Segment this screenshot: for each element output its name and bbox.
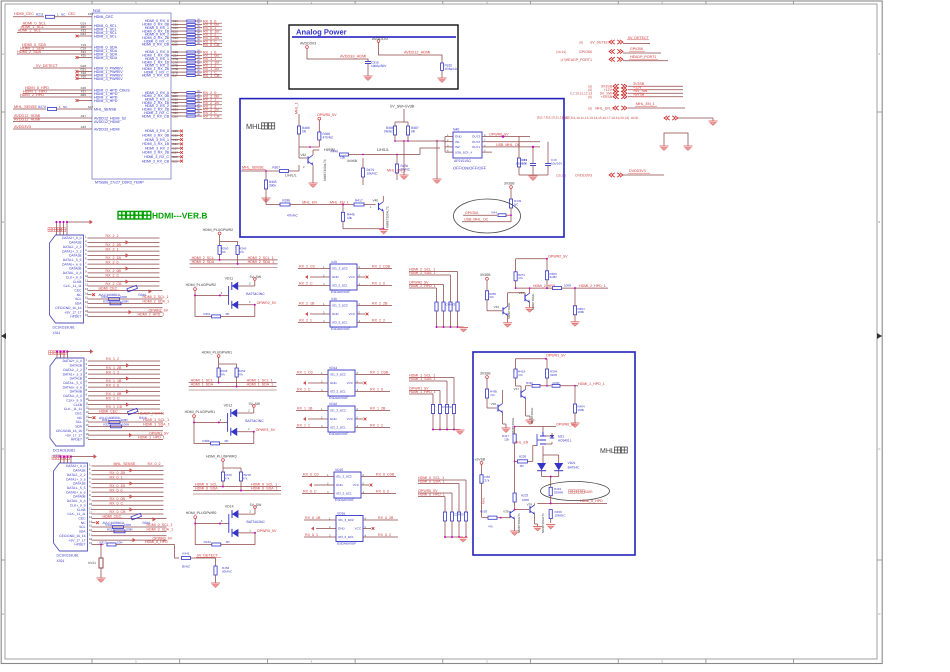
wire AVDD1V2 to FB: [379, 42, 443, 63]
svg-text:A: A: [878, 52, 880, 56]
resistor R456 0R/NC: [395, 164, 398, 173]
svg-text:OPWR2_5V: OPWR2_5V: [548, 255, 568, 259]
svg-text:HDMI_1_RX_CB: HDMI_1_RX_CB: [142, 74, 170, 78]
net OPWR0_5V at diode pin 1: [238, 532, 255, 534]
svg-text:RX_1_0: RX_1_0: [370, 388, 383, 392]
svg-text:R441: R441: [182, 552, 190, 556]
svg-text:+5VSB: +5VSB: [633, 93, 645, 97]
svg-text:RX_1_1: RX_1_1: [106, 370, 119, 374]
connector X321 ground row: [92, 535, 167, 537]
resistor R404 100k: [574, 386, 576, 404]
svg-text:5V_DETECT: 5V_DETECT: [36, 64, 59, 68]
wire SDA net ch1: [189, 386, 277, 388]
connector X311 label (CJK): [48, 228, 52, 232]
connector X321 NC row: [92, 522, 96, 524]
resistor R226 0R: [518, 460, 528, 463]
svg-text:IO3_2_BC1: IO3_2_BC1: [332, 284, 348, 288]
svg-text:F25: F25: [81, 53, 87, 57]
svg-text:MMBT3904LT1: MMBT3904LT1: [386, 206, 390, 228]
resistor R265 47k: [485, 291, 488, 300]
wire mosfet gate to R226 branch: [532, 445, 534, 461]
svg-text:K17: K17: [88, 105, 94, 109]
svg-text:IN2: IN2: [455, 145, 460, 149]
svg-text:C2RV2: C2RV2: [454, 513, 464, 517]
wire MHL_1 to R489: [298, 114, 300, 126]
connector X321 SDA row resistor: [92, 530, 167, 532]
svg-text:RX_1_0: RX_1_0: [106, 383, 119, 387]
svg-text:RX_1_2B: RX_1_2B: [370, 407, 386, 411]
svg-text:OPWR1_5V: OPWR1_5V: [546, 354, 566, 358]
svg-text:RX_0_C0: RX_0_C0: [303, 473, 319, 477]
svg-text:HDMI_3_SCL: HDMI_3_SCL: [94, 34, 117, 38]
resistor R264 100k: [574, 288, 576, 306]
svg-text:0R: 0R: [411, 129, 416, 133]
svg-text:+5VSB: +5VSB: [601, 95, 613, 99]
svg-text:OFF/ON/OFF/OFF: OFF/ON/OFF/OFF: [453, 166, 487, 171]
svg-text:DC1RO19UB1: DC1RO19UB1: [53, 449, 75, 453]
svg-text:910R: 910R: [550, 275, 558, 279]
connector X320 HPDET row: [88, 438, 163, 440]
svg-text:RX_2_1: RX_2_1: [106, 247, 119, 251]
svg-text:BAT54CINC: BAT54CINC: [245, 419, 264, 423]
svg-text:R332: R332: [103, 300, 111, 304]
svg-text:MMBT3904LT1: MMBT3904LT1: [517, 513, 521, 533]
connector X321 label (CJK): [52, 456, 56, 460]
svg-text:E19: E19: [88, 12, 94, 16]
svg-text:GPIO56: GPIO56: [579, 50, 592, 54]
ESD diode IC VD15: [334, 472, 361, 498]
ESD diode IC VD16: [336, 516, 363, 542]
svg-text:HDMI_PLUGPWR1: HDMI_PLUGPWR1: [185, 410, 216, 414]
resistor R39 47k: [518, 137, 520, 159]
svg-text:GND: GND: [338, 527, 346, 531]
pulldown wires ch0: [465, 480, 467, 512]
svg-text:HDMI_3_SDA: HDMI_3_SDA: [94, 56, 118, 60]
connector X321 SCL row resistor: [92, 526, 167, 528]
connector X311 SCL row resistor: [88, 298, 163, 300]
svg-text:AVDD12_HDMI: AVDD12_HDMI: [404, 51, 430, 55]
svg-text:47k: 47k: [489, 295, 494, 299]
svg-text:CEC: CEC: [68, 12, 76, 16]
wire VD12 node: [194, 421, 228, 423]
svg-text:IO1_3_BC2: IO1_3_BC2: [332, 304, 348, 308]
svg-text:620RR: 620RR: [554, 491, 564, 495]
svg-text:620R: 620R: [585, 490, 594, 494]
pulldown wires ch1: [453, 378, 455, 405]
svg-text:V30: V30: [331, 297, 337, 301]
svg-text:HDMI_0_SDA_1: HDMI_0_SDA_1: [147, 528, 174, 532]
svg-text:R503: R503: [480, 510, 488, 514]
svg-text:3V3SB: 3V3SB: [347, 159, 357, 163]
svg-text:VCC: VCC: [347, 417, 354, 421]
svg-text:RX_0_C: RX_0_C: [303, 490, 317, 494]
ellipse annotation GPIO5A/USB_MHL_OC: [454, 199, 521, 233]
ground under V36: [502, 427, 511, 429]
ground under V34: [503, 322, 512, 324]
svg-text:IO1_3_BC2: IO1_3_BC2: [338, 518, 354, 522]
svg-text:MHL: MHL: [600, 448, 615, 455]
ground for FB32: [441, 71, 443, 79]
svg-text:VCC: VCC: [353, 483, 360, 487]
wire SCL net ch0: [193, 486, 281, 488]
svg-text:G24: G24: [80, 32, 86, 36]
svg-text:HDMI_0_SDA: HDMI_0_SDA: [195, 487, 218, 491]
connector X311 SDA row resistor: [88, 302, 163, 304]
svg-text:DVDD3V3: DVDD3V3: [629, 169, 646, 173]
svg-text:MMBT3904LT1: MMBT3904LT1: [323, 159, 327, 181]
svg-text:27k: 27k: [485, 479, 490, 483]
svg-text:47k: 47k: [490, 393, 495, 397]
MHL control group box (top): [240, 99, 564, 237]
svg-text:470/NC: 470/NC: [323, 135, 335, 139]
svg-text:VCC: VCC: [349, 275, 356, 279]
svg-text:R251: R251: [203, 312, 211, 316]
svg-text:HDMI_PLUGPWR2: HDMI_PLUGPWR2: [203, 228, 234, 232]
svg-text:R322: R322: [103, 423, 111, 427]
svg-text:MMBT3904L: MMBT3904L: [507, 302, 511, 319]
resistor R441 2k/NC: [182, 557, 191, 560]
resistor R44 in ellipse: [498, 214, 506, 217]
svg-text:GND: GND: [332, 275, 340, 279]
ellipse annotation 620R change: [541, 482, 610, 501]
resistor R250 47k: [218, 245, 221, 254]
svg-text:AO3401L: AO3401L: [558, 439, 572, 443]
svg-text:AP2151SG: AP2151SG: [454, 159, 471, 163]
svg-text:X321: X321: [57, 559, 65, 563]
svg-text:HDMI_1_SDA: HDMI_1_SDA: [191, 383, 214, 387]
svg-text:MHL: MHL: [481, 497, 485, 504]
resistor R419 620RR (in ellipse): [549, 487, 552, 495]
ground under R463: [211, 582, 220, 584]
svg-text:HDMI_0_HPD: HDMI_0_HPD: [145, 540, 168, 544]
svg-text:VD13: VD13: [329, 366, 337, 370]
svg-text:MMBT3904L: MMBT3904L: [530, 407, 534, 424]
svg-text:RX_2_2: RX_2_2: [106, 234, 119, 238]
series resistors to HDMI_1_HPD_1: [526, 385, 531, 387]
svg-text:HDMI_2_HPD_1: HDMI_2_HPD_1: [409, 284, 436, 288]
connector X321 differential wires: [92, 465, 164, 467]
svg-text:BAT54CINC: BAT54CINC: [246, 292, 265, 296]
svg-text:R420: R420: [526, 381, 533, 385]
pin stub G24 NC: [78, 35, 92, 37]
svg-text:L/H/L/L: L/H/L/L: [377, 148, 389, 152]
svg-text:[5,6,7,8,9,10,11,12,13,14,15,1: [5,6,7,8,9,10,11,12,13,14,15,16,17,18,19…: [562, 116, 639, 120]
svg-text:47k: 47k: [220, 372, 225, 376]
svg-text:R417: R417: [355, 199, 363, 203]
svg-text:RX_2_2B: RX_2_2B: [372, 302, 388, 306]
capacitor C43 10u/16V: [547, 142, 549, 163]
svg-text:AVDD12_HDMI: AVDD12_HDMI: [14, 117, 40, 121]
svg-text:DC1RO19UB1: DC1RO19UB1: [57, 554, 79, 558]
svg-text:IO1_3_BC2: IO1_3_BC2: [330, 409, 346, 413]
svg-text:RX_2_2: RX_2_2: [372, 319, 385, 323]
svg-text:DVDD3V3: DVDD3V3: [575, 173, 592, 177]
svg-text:IO3_2_BC1: IO3_2_BC1: [336, 492, 352, 496]
svg-text:47k: 47k: [238, 372, 243, 376]
svg-text:50k/NC: 50k/NC: [222, 569, 233, 573]
svg-text:[6]: [6]: [588, 106, 592, 110]
svg-text:R313: R313: [99, 540, 107, 544]
connector X320 +5V row: [88, 434, 163, 436]
resistor R447 12k: [513, 434, 516, 443]
svg-text:HDMI_3_PWR5V: HDMI_3_PWR5V: [94, 77, 123, 81]
svg-text:HEADP_PORT1: HEADP_PORT1: [630, 55, 656, 59]
svg-text:1R8a/1A: 1R8a/1A: [445, 67, 458, 71]
svg-text:RX_1_C: RX_1_C: [297, 388, 311, 392]
svg-text:IO1_3_BC2: IO1_3_BC2: [330, 373, 346, 377]
connector X320 ground row: [88, 430, 163, 432]
wire rail to N40: [395, 140, 445, 142]
svg-text:5V_SW+5V3B: 5V_SW+5V3B: [390, 105, 415, 109]
resistor R286 0R: [194, 422, 211, 443]
wire mosfet drain down to diodes: [542, 446, 544, 455]
ESD diode IC VD13: [328, 370, 355, 396]
svg-text:VD21: VD21: [568, 461, 576, 465]
resistor R394 910R: [545, 369, 548, 378]
svg-text:MHL_SENSE: MHL_SENSE: [14, 105, 37, 109]
connector X311 HPDET row: [88, 315, 163, 317]
svg-text:N40: N40: [453, 128, 459, 132]
svg-text:ESDA6V8UF: ESDA6V8UF: [329, 396, 348, 400]
svg-text:ESDA6V8UF: ESDA6V8UF: [337, 541, 356, 545]
IC N40 AP2151SG: [453, 132, 482, 158]
grounds under caps: [519, 174, 548, 176]
svg-text:MHL_EN_1: MHL_EN_1: [595, 106, 614, 110]
wire VD11 node: [195, 294, 229, 296]
svg-text:MHL_SENSE: MHL_SENSE: [242, 166, 264, 170]
resistor R449 NC: [509, 199, 512, 208]
svg-text:OPWR0_5V: OPWR0_5V: [317, 113, 337, 117]
pulldown ground ch2: [437, 326, 464, 328]
svg-text:RX_2_C: RX_2_C: [106, 273, 120, 277]
HDMI connector X321 body: [54, 463, 88, 551]
connector X320 differential wires: [88, 360, 160, 362]
svg-text:HDMI_1_SDA_1: HDMI_1_SDA_1: [247, 383, 274, 387]
svg-text:V34: V34: [494, 305, 500, 309]
svg-text:HDMI_0_SDA_1: HDMI_0_SDA_1: [418, 480, 445, 484]
svg-text:100R: 100R: [122, 300, 130, 304]
svg-text:RX_0_0: RX_0_0: [110, 488, 123, 492]
svg-text:VCC: VCC: [355, 527, 362, 531]
svg-text:OUT3: OUT3: [472, 135, 480, 139]
svg-text:12k: 12k: [504, 437, 509, 441]
svg-text:47k: 47k: [488, 524, 493, 528]
svg-text:2k/NC: 2k/NC: [182, 564, 191, 568]
pin stub F25 NC: [78, 57, 92, 59]
ESD diode IC V29: [330, 264, 357, 290]
resistor R485 47k: [485, 389, 488, 398]
svg-text:L/H/L/L: L/H/L/L: [285, 173, 297, 177]
svg-text:ESDA6V8UF: ESDA6V8UF: [331, 327, 350, 331]
svg-text:+5VSB: +5VSB: [475, 457, 486, 461]
connector X320 SCL row resistor: [88, 421, 163, 423]
svg-text:10k: 10k: [347, 216, 353, 220]
ground under V37: [526, 419, 535, 421]
svg-text:ESDA6V8UF: ESDA6V8UF: [335, 498, 354, 502]
svg-text:MHL_SENSE: MHL_SENSE: [94, 107, 117, 111]
svg-text:R226: R226: [519, 455, 527, 459]
power AVDD1V2: [377, 40, 380, 43]
svg-text:RX_1_1: RX_1_1: [297, 424, 310, 428]
svg-text:VD14: VD14: [225, 505, 234, 509]
svg-text:MHL_EN: MHL_EN: [515, 440, 529, 444]
connector X311 differential wires: [88, 237, 160, 239]
svg-text:HDMI_CEC: HDMI_CEC: [94, 15, 114, 19]
svg-text:RX_1_C0B: RX_1_C0B: [370, 371, 389, 375]
svg-text:RX_2_1B: RX_2_1B: [299, 302, 315, 306]
resistor RW18 47k: [239, 472, 242, 481]
svg-text:47k: 47k: [239, 250, 244, 254]
svg-text:BAT54C: BAT54C: [568, 465, 581, 469]
svg-text:USB_MHL_OC: USB_MHL_OC: [464, 218, 489, 222]
svg-text:AVDD1V2: AVDD1V2: [372, 37, 388, 41]
svg-text:RX_2_C0: RX_2_C0: [299, 265, 315, 269]
resistor R223 100R: [513, 493, 516, 502]
svg-text:A27: A27: [81, 114, 87, 118]
connector X311 +5V row: [88, 311, 163, 313]
connector X321 top entry wires: [60, 457, 62, 464]
svg-text:RX_2_0: RX_2_0: [106, 260, 119, 264]
resistor R248 47k: [217, 368, 220, 377]
svg-text:ESDA6V8UF: ESDA6V8UF: [329, 432, 348, 436]
resistor R288 47k/NC: [265, 198, 267, 205]
svg-text:47k: 47k: [243, 476, 248, 480]
svg-text:RX_0_C: RX_0_C: [110, 501, 124, 505]
resistor R257 47k (2): [514, 272, 517, 281]
Analog Power group box: [289, 25, 458, 89]
svg-text:47k/NC: 47k/NC: [287, 213, 298, 217]
ground under V39: [533, 526, 542, 528]
svg-text:MHL: MHL: [246, 122, 262, 131]
svg-text:V32: V32: [300, 153, 306, 157]
svg-text:GPIO56: GPIO56: [630, 47, 643, 51]
resistor R419 47k (bottom box): [514, 369, 517, 378]
varistor XV21: [100, 545, 102, 559]
svg-text:R421: R421: [204, 540, 212, 544]
pi wire with two grounds: [664, 133, 688, 146]
connector X320 top entry wires: [56, 352, 58, 359]
svg-text:HDMI_2_HPD_1: HDMI_2_HPD_1: [138, 313, 165, 317]
svg-text:DC1RO19UB1: DC1RO19UB1: [53, 326, 75, 330]
ESD diode IC V30: [330, 301, 357, 327]
svg-text:V37: V37: [514, 387, 520, 391]
resistor R395 390k with ground: [265, 171, 267, 180]
IC N16 MT5506 body: [92, 13, 171, 179]
svg-text:XV21: XV21: [88, 561, 96, 565]
svg-text:HDMI_0_RX_CB: HDMI_0_RX_CB: [142, 43, 170, 47]
svg-text:HDMI---VER.B: HDMI---VER.B: [152, 211, 207, 221]
connector X320 NC row: [88, 417, 92, 419]
svg-text:620R: 620R: [553, 381, 560, 385]
connector X321 +5V row: [92, 539, 167, 541]
svg-text:3V3SB: 3V3SB: [480, 273, 491, 277]
wire OPWR rail (hpd ch2): [516, 258, 547, 260]
svg-text:390k: 390k: [269, 183, 276, 187]
resistor R387 0R: [406, 126, 409, 135]
svg-text:C4RV2: C4RV2: [446, 303, 456, 307]
svg-text:IO3_2_BC1: IO3_2_BC1: [338, 535, 354, 539]
svg-text:Analog Power: Analog Power: [296, 28, 347, 37]
svg-text:IN1: IN1: [455, 140, 460, 144]
svg-text:HDMI_PLUGPWR1: HDMI_PLUGPWR1: [202, 350, 233, 354]
resistor R445 10k: [342, 205, 344, 213]
capacitor C41 10u/10V: [532, 147, 534, 163]
svg-text:HPDET: HPDET: [74, 543, 85, 547]
svg-text:USB_BCF_4: USB_BCF_4: [455, 150, 473, 154]
svg-text:HDMI_1_HPD_1: HDMI_1_HPD_1: [138, 436, 165, 440]
connector X311 CEC row: [88, 289, 163, 291]
svg-text:RX_0_2B: RX_0_2B: [378, 516, 394, 520]
svg-text:10M/NC: 10M/NC: [555, 513, 567, 517]
connector X321 HPDET row: [92, 543, 104, 545]
svg-text:GND: GND: [332, 312, 340, 316]
MHL control group box (bottom): [473, 352, 635, 555]
svg-text:VD12: VD12: [224, 403, 233, 407]
pulldown wires ch2: [457, 272, 459, 303]
resistor R252 47k: [235, 368, 238, 377]
HDMI connector X311 body: [50, 235, 84, 323]
svg-text:MHL_EN_1: MHL_EN_1: [330, 201, 349, 205]
svg-text:RX_0_C0B: RX_0_C0B: [376, 473, 395, 477]
wire SCL net ch2: [190, 259, 278, 261]
power 3V3SB for R449: [510, 186, 513, 189]
HDMI connector X320 body: [50, 358, 84, 446]
svg-text:HDMI_2_SDA_1: HDMI_2_SDA_1: [143, 300, 170, 304]
resistor R386 0R/NC: [393, 126, 396, 135]
connector X320 SDA row resistor: [88, 425, 163, 427]
svg-text:VD18: VD18: [329, 402, 337, 406]
resistor R249 47k: [236, 245, 239, 254]
svg-text:C3RV2: C3RV2: [442, 405, 452, 409]
svg-text:HDMI_2_SDA_1: HDMI_2_SDA_1: [248, 260, 275, 264]
svg-text:RX_2_CB: RX_2_CB: [203, 114, 220, 118]
svg-text:IO3_2_BC1: IO3_2_BC1: [330, 426, 346, 430]
svg-text:[5,6,7,8,9,10,11,12,13]: [5,6,7,8,9,10,11,12,13]: [537, 116, 569, 120]
svg-text:R288: R288: [282, 199, 290, 203]
svg-text:HDMI_1_SDA_1: HDMI_1_SDA_1: [409, 377, 436, 381]
svg-text:V38: V38: [503, 510, 509, 514]
svg-text:HDMI_PLUGPWR2: HDMI_PLUGPWR2: [186, 283, 217, 287]
svg-text:RX_1_C: RX_1_C: [106, 396, 120, 400]
svg-text:5V_DETECT: 5V_DETECT: [628, 36, 650, 40]
resistor R479 10k/NC: [361, 168, 364, 177]
svg-text:GND: GND: [336, 483, 344, 487]
svg-text:BAT54CINC: BAT54CINC: [247, 520, 266, 524]
svg-text:AVDD33_HDMI: AVDD33_HDMI: [94, 127, 120, 131]
power AVDD3V3: [306, 46, 309, 49]
svg-text:R312: R312: [107, 528, 115, 532]
svg-text:10k: 10k: [340, 156, 346, 160]
svg-text:HPDET: HPDET: [71, 438, 82, 442]
svg-text:10R: 10R: [117, 540, 123, 544]
svg-text:MT5506_27x27_DDR3_TEMP: MT5506_27x27_DDR3_TEMP: [95, 181, 144, 185]
svg-text:47k: 47k: [225, 476, 230, 480]
svg-text:HDMI_1_SDA_1: HDMI_1_SDA_1: [143, 423, 170, 427]
svg-text:R367: R367: [272, 166, 280, 170]
svg-text:5V_DETECT: 5V_DETECT: [590, 41, 612, 45]
wire SDA net ch0: [193, 490, 281, 492]
ESD diode IC VD18: [328, 406, 355, 432]
connector X311 top entry wires: [56, 222, 58, 235]
svg-text:HDMI_0_SDA_1: HDMI_0_SDA_1: [251, 487, 278, 491]
svg-text:V29: V29: [331, 260, 337, 264]
pulldown ground ch0: [445, 536, 463, 538]
svg-text:OPWR1_5V: OPWR1_5V: [256, 428, 276, 432]
svg-text:GPIO5A: GPIO5A: [465, 211, 479, 215]
svg-text:10k/NC: 10k/NC: [367, 171, 378, 175]
svg-text:R448: R448: [330, 150, 338, 154]
wire SCL net ch1: [189, 382, 277, 384]
